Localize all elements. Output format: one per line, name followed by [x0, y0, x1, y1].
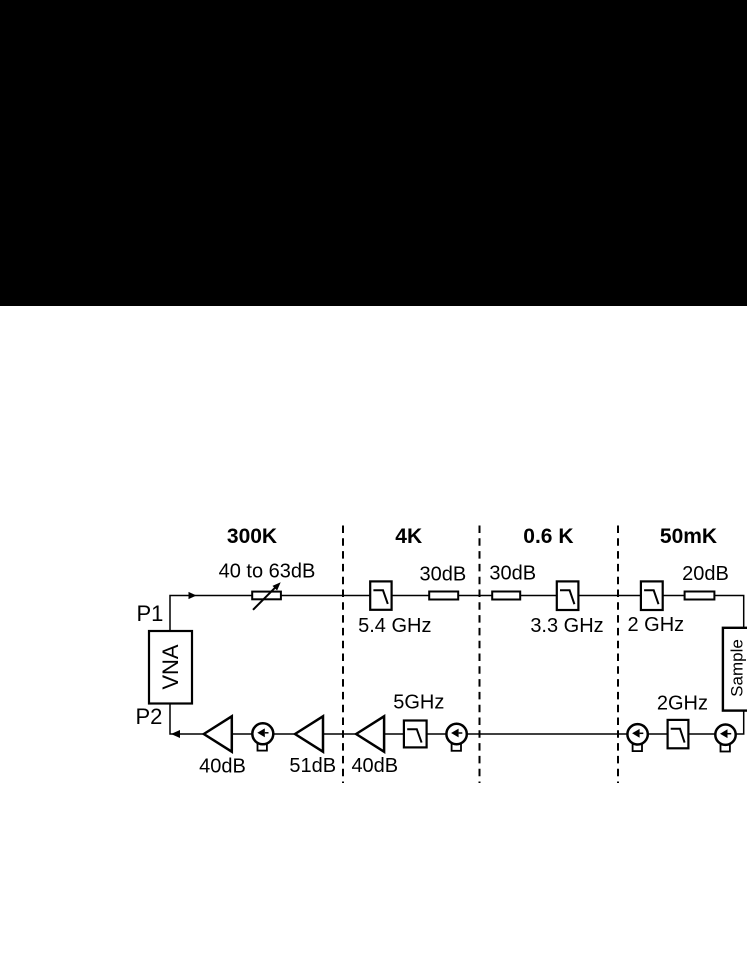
svg-text:3.3 GHz: 3.3 GHz — [530, 615, 603, 637]
svg-text:51dB: 51dB — [289, 755, 336, 777]
svg-text:40 to 63dB: 40 to 63dB — [219, 560, 316, 582]
stage boundary dashed line 300K/4K — [342, 526, 344, 784]
circulator (300K) — [252, 723, 273, 750]
svg-text:20dB: 20dB — [682, 563, 729, 585]
svg-text:P2: P2 — [136, 704, 163, 729]
black header band — [0, 0, 747, 306]
svg-text:40dB: 40dB — [199, 755, 246, 777]
svg-text:0.6 K: 0.6 K — [523, 525, 573, 548]
wire: bottom output line to P2 — [170, 704, 744, 735]
circulator (50mK, left) — [627, 724, 647, 751]
svg-text:30dB: 30dB — [489, 563, 536, 585]
svg-text:30dB: 30dB — [420, 563, 467, 585]
svg-text:4K: 4K — [395, 525, 422, 548]
attenuator 20dB — [685, 592, 715, 600]
low-pass filter 5GHz — [404, 721, 427, 748]
svg-text:P1: P1 — [137, 601, 164, 626]
circulator (4K) — [446, 724, 466, 751]
stage boundary dashed line 4K/0.6K — [479, 526, 481, 784]
variable attenuator 40-63dB — [252, 582, 281, 610]
attenuator 30dB (4K) — [429, 592, 458, 600]
stage boundary dashed line 0.6K/50mK — [617, 526, 619, 784]
amplifier 51dB — [295, 716, 323, 751]
svg-text:40dB: 40dB — [351, 755, 398, 777]
svg-text:300K: 300K — [227, 525, 277, 548]
low-pass filter 5.4 GHz — [370, 581, 391, 609]
low-pass filter 3.3 GHz — [557, 581, 579, 610]
low-pass filter 2GHz (50mK bottom) — [668, 720, 689, 748]
amplifier 40dB (4K) — [356, 716, 384, 751]
svg-text:2GHz: 2GHz — [657, 692, 708, 714]
VNA box — [149, 631, 192, 704]
arrowhead into P2 — [171, 730, 180, 738]
svg-text:5GHz: 5GHz — [393, 691, 444, 713]
amplifier 40dB (300K, left) — [204, 716, 232, 751]
svg-text:Sample: Sample — [727, 639, 746, 697]
svg-text:5.4 GHz: 5.4 GHz — [358, 615, 431, 637]
wire: top input line P1 — [170, 596, 744, 631]
svg-text:VNA: VNA — [158, 644, 183, 690]
circulator (50mK, right) — [715, 725, 735, 752]
attenuator 30dB (0.6K) — [492, 592, 520, 600]
low-pass filter 2 GHz (50mK) — [641, 581, 663, 610]
svg-text:50mK: 50mK — [660, 525, 717, 548]
svg-text:2 GHz: 2 GHz — [627, 614, 684, 636]
arrowhead on top wire — [189, 592, 197, 599]
sample box — [723, 628, 747, 711]
